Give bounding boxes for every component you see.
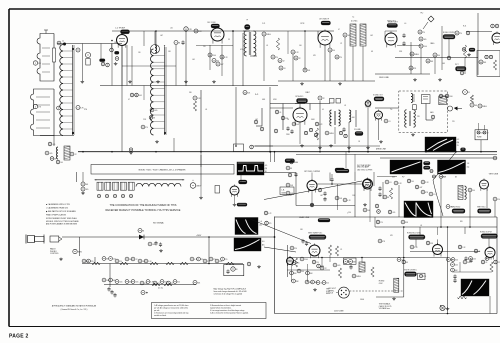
svg-text:.01: .01: [389, 182, 391, 184]
svg-text:L.B.: L.B.: [282, 190, 286, 192]
tube V9 sync det 6AL5: [230, 185, 239, 197]
resistor R43: [294, 258, 297, 267]
coil L7 IF output: [151, 45, 167, 135]
wire vertical x441: [440, 179, 442, 227]
row2 resistor: [152, 283, 172, 286]
wire bus y158 right: [380, 157, 497, 159]
svg-text:4.5 mc: 4.5 mc: [158, 288, 163, 290]
misc value labels mid: [128, 92, 434, 121]
capacitor C55: [410, 245, 418, 249]
waveform scope W4: [390, 160, 422, 174]
waveform scope W7 horiz AFC: [404, 201, 433, 218]
wafer B bottom wire: [40, 135, 74, 137]
ground G19: [392, 297, 396, 300]
tube V15 horiz mult: [433, 243, 443, 257]
diagonal wire sync to scope: [264, 181, 362, 200]
row1 resistor a: [92, 262, 100, 265]
waveform scope W1 composite video: [237, 162, 264, 175]
capacitor C72: [464, 256, 472, 263]
wire top section tube V1 pins: [126, 45, 128, 86]
tube label 6C4 audio: [297, 99, 308, 104]
svg-text:68: 68: [153, 118, 155, 120]
capacitor C78: [294, 172, 297, 177]
wire antenna bus y237: [62, 236, 275, 238]
svg-text:.02: .02: [470, 98, 472, 100]
hold labels: [451, 206, 486, 208]
svg-text:150: 150: [138, 52, 141, 54]
svg-text:.047: .047: [160, 35, 163, 37]
fuse holder rect: [344, 258, 357, 264]
wire vertical x435: [434, 57, 436, 74]
wire x335 xfmr: [334, 127, 336, 144]
capacitor C34: [439, 94, 453, 98]
value label 270: [84, 109, 87, 111]
wire sync bottom y205: [296, 205, 355, 207]
capacitor C69: [317, 264, 325, 268]
wire vertical x101: [100, 44, 102, 59]
AGC section box: [477, 51, 500, 77]
waveform scope W6 sync input: [425, 137, 456, 152]
fuse callouts: [344, 260, 357, 264]
wire vertical x370: [369, 189, 371, 222]
capacitor C81: [493, 156, 497, 160]
afc tube V14: [363, 178, 371, 189]
switch wafer S1B oscillator: [31, 89, 55, 136]
svg-text:.005: .005: [135, 282, 138, 284]
svg-text:VIDEO DET: VIDEO DET: [387, 20, 396, 22]
capacitor C48: [394, 181, 402, 185]
wire rail y45 right: [397, 45, 421, 47]
svg-text:PEAK OF APPLICATION: PEAK OF APPLICATION: [46, 213, 67, 216]
wire vertical x355: [354, 172, 356, 181]
svg-text:.1: .1: [433, 119, 434, 121]
resistor R28: [433, 175, 436, 178]
audio B+ rail y103.5: [270, 103, 330, 105]
capacitor C44: [290, 246, 297, 250]
svg-text:21: 21: [263, 34, 265, 36]
svg-text:NOTED NUMBER ON SET USED IN AL: NOTED NUMBER ON SET USED IN ALL: [46, 217, 77, 220]
resistor R21: [56, 160, 63, 164]
horiz section tube label pills: [409, 235, 426, 240]
svg-text:VOLUME: VOLUME: [354, 129, 361, 131]
resistor R42: [458, 245, 466, 249]
svg-text:.005: .005: [473, 259, 476, 261]
svg-text:100: 100: [60, 162, 63, 164]
antenna trimmer pair: [57, 41, 66, 46]
wire vertical x307b: [307, 264, 309, 282]
resistor R9: [279, 66, 286, 70]
misc value labels low: [288, 195, 463, 251]
capacitor C12: [278, 59, 285, 63]
svg-text:4.5 MC: 4.5 MC: [351, 21, 358, 23]
delay line terminal: [190, 180, 201, 189]
wire top rail y43.5: [57, 43, 122, 45]
scope B4 B5 under-labels: [392, 177, 457, 179]
wire rail y31 tube tops: [385, 31, 397, 39]
page border top: [9, 8, 500, 10]
mid band caps: [286, 126, 345, 134]
tube V4 video det 6AL5: [385, 32, 397, 48]
tube V17 damper small: [287, 256, 294, 266]
svg-text:330: 330: [189, 92, 192, 94]
svg-text:220: 220: [294, 248, 297, 250]
antenna plug body: [26, 235, 44, 244]
svg-text:1500: 1500: [114, 42, 118, 44]
row1 resistor c: [150, 262, 188, 265]
svg-text:2: 2: [35, 106, 36, 108]
pill small 2nd sync: [285, 159, 295, 163]
svg-text:.22: .22: [322, 98, 324, 100]
svg-text:(REV) LINE: (REV) LINE: [376, 148, 387, 150]
curved connector right: [433, 180, 443, 216]
service notes col2: [210, 304, 249, 315]
wire vertical x201: [200, 90, 202, 152]
wire V6 to gnd: [299, 122, 301, 144]
resistor R27: [470, 95, 478, 107]
diamond test point TP1: [423, 16, 434, 29]
tap resistor R22: [141, 125, 148, 129]
svg-text:NO SIGNAL: NO SIGNAL: [153, 222, 165, 225]
svg-text:.005: .005: [337, 265, 340, 267]
row1 callouts c: [125, 257, 152, 263]
svg-text:100: 100: [332, 50, 335, 52]
row2 callouts a: [102, 278, 122, 283]
capacitor C75: [460, 71, 464, 75]
svg-text:6SN7: 6SN7: [282, 192, 287, 194]
capacitor C46: [301, 239, 308, 246]
svg-text:5: 5: [77, 107, 78, 109]
svg-text:T-6: T-6: [390, 109, 392, 111]
width control pill: [405, 272, 417, 277]
capacitor C74: [462, 48, 466, 52]
capacitor C10: [262, 32, 272, 36]
wire rail y176 right: [377, 176, 397, 178]
coordination text: [106, 204, 181, 212]
wire bus y31: [112, 30, 334, 32]
svg-text:9: 9: [175, 42, 176, 44]
svg-text:.22: .22: [171, 283, 173, 285]
svg-text:.02: .02: [344, 105, 346, 107]
waveform scope W8 horiz output: [461, 279, 489, 296]
sync disc pill: [318, 219, 330, 223]
ground G1: [300, 82, 304, 85]
resistor R36: [383, 195, 389, 199]
ground G14: [156, 80, 160, 83]
wire vertical x111: [111, 44, 113, 49]
wire delay vertical x83: [82, 172, 84, 182]
wire vertical x243: [242, 33, 244, 86]
control pill sync: [336, 169, 350, 173]
ground G3: [413, 78, 442, 81]
wire horiz y146 short: [255, 145, 273, 147]
capacitor C5: [174, 41, 180, 45]
svg-text:270: 270: [91, 261, 94, 263]
svg-text:TP-2: TP-2: [420, 13, 423, 15]
svg-text:( Howard W. Sams & Co., Inc. 1: ( Howard W. Sams & Co., Inc. 195 ): [61, 308, 88, 311]
vert hold control pill: [478, 209, 492, 213]
svg-text:.005: .005: [392, 212, 395, 214]
horiz osc coil: [394, 278, 399, 292]
svg-text:.005: .005: [139, 95, 142, 97]
svg-text:2: 2: [35, 63, 36, 65]
wire vertical x144b: [143, 86, 145, 101]
svg-text:□ CALIBRATED PEAK 50%: □ CALIBRATED PEAK 50%: [46, 207, 69, 210]
tube V11 sync sep: [363, 178, 373, 192]
svg-text:115V LINE: 115V LINE: [334, 311, 344, 313]
wire V10 pins: [311, 173, 313, 206]
resistor R33: [300, 257, 308, 261]
svg-text:47: 47: [128, 99, 130, 101]
waveform scope W3 vert sweep: [234, 238, 261, 251]
ground G20: [467, 53, 471, 56]
wire vertical x478: [477, 13, 479, 75]
svg-text:1ST VIDEO IF: 1ST VIDEO IF: [319, 18, 329, 20]
svg-text:schematic of all voltage Res i: schematic of all voltage Res is applied: [214, 292, 243, 295]
diode D2 crystal: [139, 235, 144, 240]
wire vertical x403: [403, 257, 405, 297]
tick callout W2a: [264, 211, 272, 215]
capacitor C14: [303, 68, 311, 72]
wire vertical x222: [221, 45, 223, 76]
pict label: [455, 64, 459, 66]
audio caps extra: [304, 128, 347, 137]
label 4.5 MC: [351, 21, 358, 23]
top row callouts right3: [463, 257, 493, 264]
volume control pill: [355, 132, 363, 136]
ground G15: [184, 80, 188, 83]
wire vertical x305: [304, 31, 306, 70]
wire rail y66 seg1: [122, 65, 176, 67]
ground G21: [129, 148, 133, 154]
wire x368 v7: [367, 106, 369, 152]
phono motor box: [224, 265, 244, 276]
resistor R32: [363, 208, 371, 212]
capacitor C47: [385, 180, 391, 184]
clip pill: [461, 148, 466, 151]
svg-text:HORIZ OUTPUT: HORIZ OUTPUT: [480, 231, 492, 233]
wire vertical x447: [447, 257, 449, 314]
svg-text:PAGE 2: PAGE 2: [9, 334, 28, 340]
ground G9: [159, 249, 163, 252]
waveform scope W5: [438, 160, 466, 174]
svg-text:AND POINTS ALWAYS IS SEE BROKE: AND POINTS ALWAYS IS SEE BROKEN: [46, 222, 78, 225]
svg-text:VERT LINE: VERT LINE: [489, 174, 499, 176]
svg-text:27: 27: [304, 70, 306, 72]
label OKEY LINE: [379, 77, 389, 79]
sound section gnds: [318, 146, 370, 149]
svg-text:25: 25: [457, 145, 459, 147]
dashed line from socket: [350, 290, 404, 292]
svg-text:6.3V: 6.3V: [392, 177, 395, 179]
wire vertical x293: [292, 54, 294, 81]
L PONT connections: [479, 123, 485, 152]
svg-text:.22: .22: [74, 154, 76, 156]
svg-text:1ST SYNC CLIPPER: 1ST SYNC CLIPPER: [304, 171, 321, 173]
capacitor C54: [401, 220, 409, 224]
service notes box: [152, 303, 267, 319]
svg-text:OSC: OSC: [379, 283, 384, 285]
svg-text:CONTROL: CONTROL: [50, 253, 59, 255]
wire vertical x399: [398, 185, 400, 217]
wire bus y154.3: [296, 153, 497, 155]
wire y108 audio: [270, 107, 293, 109]
svg-text:184V LINE: 184V LINE: [379, 77, 389, 79]
diagonal wire to vert osc: [264, 247, 296, 252]
svg-text:270: 270: [225, 259, 228, 261]
resistor R16: [426, 59, 434, 63]
wire x234 sync tube drop: [233, 195, 237, 206]
svg-text:WIDTH CONTROL: WIDTH CONTROL: [404, 269, 417, 271]
wire vertical x355b: [354, 154, 356, 172]
svg-text:.01: .01: [468, 92, 470, 94]
svg-text:.002: .002: [370, 35, 373, 37]
wire vertical x122: [121, 45, 123, 86]
ground G22: [257, 265, 261, 268]
wire lower y297: [376, 296, 404, 298]
bleeder resistor: [338, 268, 341, 278]
page border bottom: [9, 326, 500, 328]
svg-text:68: 68: [387, 197, 389, 199]
svg-text:L-9: L-9: [404, 23, 406, 25]
capacitor C39: [290, 160, 299, 164]
wire y184 sync: [317, 183, 363, 185]
svg-text:270: 270: [207, 261, 210, 263]
svg-text:.22: .22: [135, 259, 137, 261]
ground G5: [300, 144, 333, 147]
ground G13: [128, 80, 132, 83]
top band extra labels: [138, 23, 406, 61]
wire bus y57: [395, 57, 478, 59]
scope W1 ticks: [238, 162, 264, 164]
capacitor C63: [333, 263, 340, 267]
capacitor C73: [466, 31, 470, 35]
capacitor C13: [291, 50, 300, 54]
frequency standard note: [52, 305, 97, 312]
capacitor C19: [409, 66, 417, 70]
svg-text:HORIZ HOLD: HORIZ HOLD: [451, 206, 461, 208]
tube V3 video IF 6AU6: [318, 30, 332, 48]
vertical connect x110: [109, 264, 111, 288]
discriminator wires: [426, 104, 435, 121]
capacitor C8: [212, 59, 219, 63]
svg-text:42: 42: [456, 33, 458, 35]
delta label: [347, 211, 351, 214]
ground G7: [411, 133, 415, 136]
svg-text:100: 100: [299, 45, 302, 47]
svg-text:1500: 1500: [212, 55, 216, 57]
wire vertical x487: [486, 189, 488, 208]
resistor R35: [328, 245, 338, 256]
ground G10: [313, 288, 317, 291]
ground G11: [59, 258, 63, 261]
svg-text:HORIZ MULT DISC: HORIZ MULT DISC: [407, 232, 422, 234]
svg-text:RECEIVER MAKES IT POSSIBLE TO: RECEIVER MAKES IT POSSIBLE TO BRING YOU …: [106, 209, 181, 212]
svg-text:PICT: PICT: [455, 64, 459, 66]
resistor R10: [294, 56, 301, 60]
capacitor C42: [330, 174, 333, 184]
svg-text:SOUND OUT: SOUND OUT: [373, 94, 383, 96]
capacitor C68: [312, 260, 319, 264]
tube V10 1st sync amp: [307, 179, 317, 193]
svg-text:.01: .01: [266, 45, 268, 47]
svg-text:1ST IF: 1ST IF: [300, 23, 305, 25]
ground G17: [310, 203, 314, 206]
svg-text:.001: .001: [192, 59, 195, 61]
tube label 6AB4: [211, 24, 220, 28]
tube V2 top pins label: [207, 22, 216, 24]
model notes box: [91, 165, 234, 175]
capacitor pair C29: [130, 93, 142, 97]
page number label PAGE 2: [9, 334, 28, 340]
3RD VID AMP label: [357, 166, 370, 169]
svg-text:44: 44: [480, 62, 482, 64]
row1 callouts a: [82, 259, 93, 263]
tube label 6AU6 video IF: [321, 21, 331, 25]
wire vertical x421: [420, 48, 422, 74]
wire vertical x447 upper: [447, 227, 449, 257]
audio pill label: [295, 95, 304, 98]
svg-text:.005: .005: [119, 282, 122, 284]
capacitor C33: [384, 119, 390, 123]
svg-text:39: 39: [434, 55, 436, 57]
svg-text:820: 820: [460, 221, 463, 223]
horiz mult label: [407, 232, 422, 234]
wire component row y284.5: [104, 284, 196, 286]
svg-text:23: 23: [279, 60, 281, 62]
svg-text:P-P: P-P: [402, 177, 405, 179]
lead line label: [299, 216, 310, 219]
wire vertical x346: [345, 152, 347, 168]
wire bus y74: [375, 73, 430, 75]
capacitor C23: [45, 151, 52, 155]
resistor R11: [335, 55, 342, 59]
wire x416 pill drop: [415, 239, 417, 247]
long diagonal from scope W6: [433, 152, 456, 180]
resistor R44: [292, 279, 300, 283]
resistor R18: [463, 45, 466, 58]
svg-text:12: 12: [195, 31, 197, 33]
wire bus y81: [278, 80, 375, 82]
svg-text:R-41: R-41: [255, 94, 258, 96]
capacitor C50: [421, 180, 429, 184]
capacitor C9: [220, 55, 229, 59]
wire vertical x174: [173, 138, 175, 152]
capacitor C60: [349, 265, 352, 270]
capacitor C35: [463, 90, 470, 95]
capacitor C61: [352, 274, 361, 278]
resistor R47: [490, 262, 493, 272]
IF can rect above bus: [234, 144, 244, 152]
transformer T3 sound takeoff can 2: [360, 24, 366, 46]
svg-text:68: 68: [371, 51, 373, 53]
tube V13 vert output: [480, 179, 489, 191]
capacitor C25: [70, 152, 76, 156]
resistor block R26: [413, 105, 417, 110]
vertical connect x209: [208, 237, 210, 264]
rectifier block: [421, 95, 430, 104]
sync tube cathode resistor: [286, 183, 294, 187]
vertical wire x274.5 upper: [274, 152, 276, 162]
service notes col1: [154, 304, 189, 317]
wire vertical x320: [318, 96, 325, 152]
wire vert x330 sync: [329, 173, 331, 182]
svg-text:31: 31: [344, 35, 346, 37]
svg-text:68: 68: [236, 269, 238, 271]
svg-text:100: 100: [455, 260, 458, 262]
capacitor C62: [453, 274, 456, 283]
svg-text:270: 270: [84, 109, 87, 111]
resistor R29: [148, 242, 155, 246]
